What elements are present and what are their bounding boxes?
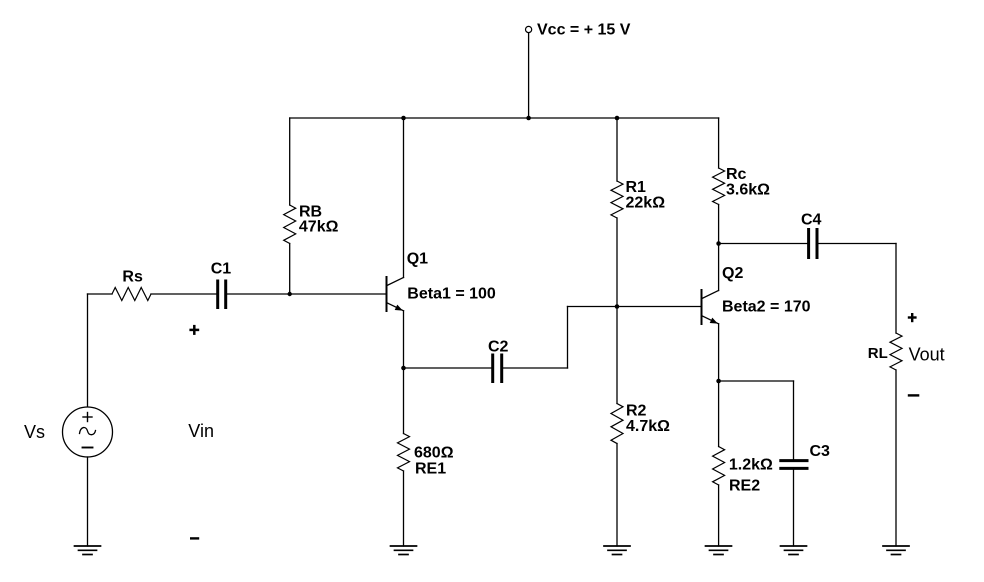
- node: R1-R2 / Q2 base: [615, 304, 620, 309]
- wire C2 riser: [567, 307, 569, 369]
- node: Vcc / rail: [526, 116, 531, 121]
- svg-text:C1: C1: [211, 261, 232, 278]
- ground (RL): [883, 546, 909, 555]
- wire Rc bottom: [718, 205, 720, 244]
- capacitor C1: [218, 281, 226, 308]
- wire Vs top vertical: [87, 294, 89, 407]
- ground (C3): [781, 546, 807, 555]
- svg-text:Rc: Rc: [726, 166, 747, 183]
- node: collector Q1 / rail: [401, 116, 406, 121]
- svg-text:Vin: Vin: [188, 421, 214, 441]
- wire RE1 bottom: [403, 471, 405, 546]
- resistor Rs: [112, 288, 151, 301]
- node: Q1 emitter: [401, 366, 406, 371]
- svg-text:Beta1 = 100: Beta1 = 100: [407, 286, 496, 303]
- svg-text:3.6kΩ: 3.6kΩ: [726, 182, 770, 199]
- wire Q2 emitter: [718, 324, 720, 381]
- capacitor C4: [809, 230, 817, 258]
- svg-text:RE1: RE1: [415, 461, 446, 478]
- wire to Q2 base: [568, 306, 702, 308]
- wire emitter node to RE1: [403, 368, 405, 434]
- resistor RL: [890, 333, 902, 370]
- wire emitter node to RE2: [718, 381, 720, 447]
- wire C2 right: [503, 367, 567, 369]
- capacitor C2: [493, 355, 502, 382]
- polarity + (Vout): [908, 313, 917, 322]
- ground (RE2): [706, 546, 732, 555]
- wire collector node to C4: [719, 243, 807, 245]
- wire C3 bottom: [793, 470, 795, 546]
- wire Vcc vertical: [528, 33, 530, 118]
- svg-text:RL: RL: [868, 345, 888, 362]
- svg-text:1.2kΩ: 1.2kΩ: [729, 457, 773, 474]
- wire C4 to RL: [819, 243, 897, 245]
- wire RB top: [289, 118, 291, 205]
- wire Vs bottom: [87, 457, 89, 546]
- wire R1 to R2: [616, 218, 618, 404]
- polarity − (Vout): [908, 394, 920, 396]
- wire RL top: [895, 244, 897, 334]
- wire Rs to C1: [151, 293, 216, 295]
- wire C3 top: [793, 381, 795, 459]
- transistor Q1: [387, 277, 404, 311]
- transistor Q2: [702, 290, 719, 324]
- svg-text:47kΩ: 47kΩ: [299, 218, 339, 235]
- wire Q1 emitter: [403, 311, 405, 368]
- svg-text:Vs: Vs: [24, 422, 45, 442]
- wire Q1 collector: [403, 118, 405, 278]
- svg-text:RE2: RE2: [729, 478, 760, 495]
- wire top supply rail: [290, 117, 719, 119]
- resistor RB: [284, 205, 296, 244]
- svg-text:Q2: Q2: [722, 265, 743, 282]
- node: Q2 emitter: [716, 379, 721, 384]
- wire R1 top: [616, 118, 618, 181]
- wire R2 bottom: [616, 444, 618, 547]
- node: Q2 collector: [716, 241, 721, 246]
- ground (R2): [604, 546, 630, 555]
- Vcc terminal: [526, 26, 532, 32]
- node: R1 / rail: [615, 116, 620, 121]
- resistor R1: [611, 181, 623, 218]
- svg-text:C3: C3: [810, 443, 831, 460]
- source Vs: [63, 407, 113, 457]
- svg-text:Rs: Rs: [122, 269, 143, 286]
- ground (Vs): [75, 546, 101, 555]
- svg-text:C4: C4: [801, 212, 822, 229]
- svg-text:22kΩ: 22kΩ: [626, 195, 666, 212]
- node: RB / Q1 base: [288, 292, 292, 296]
- polarity − (Vin): [190, 537, 199, 539]
- wire RE2 bottom: [718, 485, 720, 546]
- svg-text:R1: R1: [626, 179, 647, 196]
- svg-text:4.7kΩ: 4.7kΩ: [626, 418, 670, 435]
- ground (RE1): [391, 546, 417, 555]
- wire RL bottom: [895, 370, 897, 546]
- resistor RE1: [398, 434, 410, 472]
- polarity + (Vin): [189, 325, 199, 335]
- wire C1 to Q1 base: [227, 293, 386, 295]
- resistor R2: [611, 404, 623, 444]
- svg-text:Q1: Q1: [407, 251, 428, 268]
- svg-text:C2: C2: [488, 339, 509, 356]
- wire emitter node to C2: [404, 367, 492, 369]
- wire Q2 collector: [718, 244, 720, 291]
- svg-text:Vout: Vout: [909, 344, 945, 364]
- svg-text:Vcc = + 15 V: Vcc = + 15 V: [537, 22, 631, 39]
- capacitor C3: [781, 461, 807, 469]
- resistor RE2: [713, 447, 725, 486]
- svg-text:Beta2 = 170: Beta2 = 170: [722, 299, 811, 316]
- wire Rc top: [718, 118, 720, 168]
- wire RB bottom: [289, 244, 291, 295]
- svg-text:680Ω: 680Ω: [414, 445, 454, 462]
- wire emitter node to C3: [719, 380, 794, 382]
- wire Vs to Rs: [88, 293, 113, 295]
- resistor Rc: [713, 168, 725, 205]
